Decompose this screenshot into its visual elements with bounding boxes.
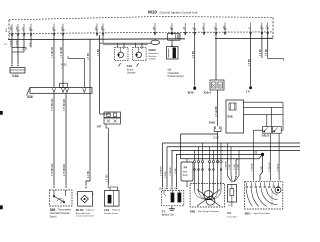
svg-text:M10: M10 — [148, 10, 157, 15]
svg-text:mission Control Unit: mission Control Unit — [76, 215, 94, 218]
svg-text:4: 4 — [217, 182, 218, 184]
svg-text:B6 S/1: B6 S/1 — [76, 208, 84, 212]
svg-text:0.5 GN/BK: 0.5 GN/BK — [216, 106, 218, 117]
svg-text:Z 6: Z 6 — [246, 89, 250, 93]
svg-text:Switch: Switch — [50, 216, 57, 219]
svg-text:6-Speed: 6-Speed — [86, 210, 94, 212]
svg-text:4: 4 — [202, 158, 203, 160]
svg-text:15z: 15z — [52, 27, 54, 30]
svg-text:Transmission: Transmission — [58, 209, 72, 212]
svg-text:Overload Protection: Overload Protection — [50, 212, 71, 215]
svg-text:1.5 BK/RD: 1.5 BK/RD — [170, 166, 172, 176]
svg-text:0.75 BK/WT: 0.75 BK/WT — [161, 165, 163, 176]
svg-text:fuse: fuse — [183, 171, 188, 173]
svg-text:Assembly Trans-: Assembly Trans- — [76, 212, 91, 215]
svg-text:Resistor: Resistor — [149, 55, 157, 58]
svg-text:Reference: Reference — [149, 52, 160, 55]
svg-text:1.5 RD: 1.5 RD — [234, 163, 236, 170]
svg-text:Spark Plug Cables: Spark Plug Cables — [254, 213, 271, 215]
svg-text:0.5 BR: 0.5 BR — [249, 59, 251, 66]
svg-text:4: 4 — [198, 158, 199, 160]
svg-text:y: y — [61, 67, 62, 69]
svg-text:4: 4 — [213, 158, 214, 160]
svg-text:4: 4 — [209, 158, 210, 160]
svg-text:0.5 BR: 0.5 BR — [10, 40, 12, 47]
svg-text:Amp: Amp — [183, 174, 188, 177]
svg-text:1.0 GN/RD: 1.0 GN/RD — [61, 46, 63, 58]
svg-text:F3: F3 — [228, 211, 232, 215]
svg-text:Position Sensor: Position Sensor — [168, 75, 184, 78]
svg-text:Sensors: Sensors — [127, 72, 136, 75]
svg-text:T1: T1 — [162, 209, 166, 213]
svg-text:Crankshaft: Crankshaft — [168, 72, 179, 75]
svg-text:R16/2: R16/2 — [149, 48, 157, 52]
svg-text:Z66/1: Z66/1 — [209, 120, 216, 124]
svg-text:0.5 BR: 0.5 BR — [193, 51, 195, 58]
svg-text:F4: F4 — [184, 165, 188, 169]
svg-text:4: 4 — [194, 158, 195, 160]
svg-text:4: 4 — [198, 182, 199, 184]
svg-text:4: 4 — [202, 182, 203, 184]
svg-text:Ignition Coil: Ignition Coil — [162, 214, 174, 217]
svg-text:L5s: L5s — [170, 26, 172, 29]
svg-text:CA1: CA1 — [12, 74, 19, 78]
svg-text:Knock: Knock — [127, 69, 134, 71]
svg-text:1.0 RD/BK: 1.0 RD/BK — [252, 162, 254, 172]
svg-text:X26: X26 — [227, 114, 233, 118]
svg-text:1.0 RD/YL: 1.0 RD/YL — [277, 163, 279, 172]
svg-text:0.75 BK/RD: 0.75 BK/RD — [64, 164, 66, 176]
svg-text:Position Sensor: Position Sensor — [104, 212, 118, 215]
svg-text:Segment: Segment — [112, 209, 120, 212]
svg-text:W10: W10 — [188, 90, 194, 94]
svg-text:R16/1: R16/1 — [61, 65, 68, 67]
svg-text:High Voltage Distributor: High Voltage Distributor — [198, 210, 219, 213]
svg-text:4: 4 — [194, 182, 195, 184]
svg-text:1.5 BK: 1.5 BK — [229, 164, 231, 170]
svg-text:0.5 GN: 0.5 GN — [107, 174, 109, 182]
svg-text:0.75 BK/RD: 0.75 BK/RD — [64, 99, 66, 111]
svg-text:0.5 BK: 0.5 BK — [260, 49, 262, 56]
svg-text:1.0 RD: 1.0 RD — [261, 165, 263, 172]
svg-text:L5: L5 — [168, 68, 172, 72]
svg-text:1.5 BK/RD: 1.5 BK/RD — [226, 160, 228, 170]
svg-text:(Cont’d) Ignition Control Unit: (Cont’d) Ignition Control Unit — [160, 10, 198, 14]
svg-text:4.0 BR: 4.0 BR — [88, 171, 90, 178]
svg-text:0.75 BK/GN: 0.75 BK/GN — [52, 163, 54, 176]
svg-text:1.5 RD: 1.5 RD — [237, 163, 239, 170]
svg-text:X26: X26 — [27, 95, 33, 99]
svg-text:0.75 BK: 0.75 BK — [165, 171, 167, 178]
svg-text:1.0 RD/GN: 1.0 RD/GN — [52, 46, 54, 58]
svg-text:1.0 RD/GN: 1.0 RD/GN — [269, 162, 271, 172]
svg-text:X11/4: X11/4 — [204, 90, 212, 94]
svg-text:1.5 BR: 1.5 BR — [98, 49, 100, 56]
svg-text:4: 4 — [213, 182, 214, 184]
svg-text:2.5 BK: 2.5 BK — [175, 168, 177, 174]
svg-text:A16: A16 — [127, 64, 133, 68]
svg-text:4: 4 — [220, 158, 221, 160]
svg-text:S65: S65 — [50, 208, 56, 212]
svg-text:1.5 BR: 1.5 BR — [88, 53, 90, 60]
svg-text:0.75 BK/GN: 0.75 BK/GN — [52, 98, 54, 111]
svg-text:(CIS/E): (CIS/E) — [149, 59, 156, 61]
svg-text:S47: S47 — [97, 124, 102, 128]
svg-text:4: 4 — [220, 182, 221, 184]
svg-text:4: 4 — [209, 182, 210, 184]
svg-text:X11/6: X11/6 — [213, 137, 220, 140]
svg-text:Fuse Box: Fuse Box — [228, 216, 238, 218]
svg-text:30u: 30u — [61, 27, 63, 30]
svg-text:0.5 BR: 0.5 BR — [16, 40, 18, 47]
svg-text:S68: S68 — [190, 209, 196, 213]
svg-text:B5/1: B5/1 — [245, 212, 251, 216]
svg-text:S41/3: S41/3 — [262, 134, 270, 138]
svg-text:L5/1: L5/1 — [104, 208, 110, 212]
